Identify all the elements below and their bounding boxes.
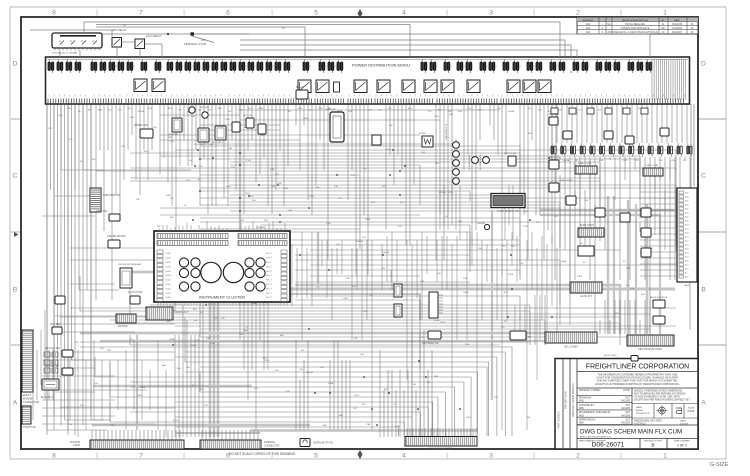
svg-text:27BL: 27BL [448, 192, 454, 194]
svg-text:4: 4 [402, 453, 406, 460]
svg-text:14B: 14B [288, 210, 292, 212]
svg-text:GND: GND [343, 298, 348, 300]
svg-text:DATE: DATE [674, 19, 680, 22]
svg-text:DWG DIAG. SCHEM. MAIN FLX: DWG DIAG. SCHEM. MAIN FLX [572, 383, 575, 417]
svg-text:1: 1 [663, 10, 667, 17]
svg-text:CRUISE SET/RESUME: CRUISE SET/RESUME [118, 264, 142, 266]
svg-text:RH-C7: RH-C7 [266, 253, 273, 255]
svg-text:MATERIAL SYMBOL:: MATERIAL SYMBOL: [579, 389, 601, 392]
svg-text:AND TOLERANCES ARE DEFINED ACC: AND TOLERANCES ARE DEFINED ACCORDING [634, 393, 686, 396]
svg-text:14B: 14B [334, 186, 338, 188]
svg-text:GND: GND [137, 395, 142, 397]
svg-text:B: B [651, 443, 654, 448]
svg-text:2-BAR CONNECTOR: 2-BAR CONNECTOR [429, 448, 452, 451]
svg-text:BLU CONN: BLU CONN [565, 346, 578, 349]
svg-text:24B: 24B [107, 350, 111, 352]
svg-text:LH-A2: LH-A2 [165, 261, 172, 264]
svg-text:THROTTLE: THROTTLE [23, 426, 36, 429]
svg-text:B: B [701, 287, 706, 294]
svg-text:02/10/97: 02/10/97 [672, 30, 683, 34]
svg-text:81K: 81K [144, 151, 148, 153]
svg-text:6: 6 [226, 10, 230, 17]
svg-text:23A: 23A [58, 114, 62, 117]
svg-text:HI LOW RES: HI LOW RES [391, 270, 393, 282]
svg-text:196A: 196A [303, 117, 309, 120]
svg-text:GND: GND [166, 321, 171, 323]
svg-text:ABS MODULATOR: ABS MODULATOR [650, 296, 668, 299]
svg-text:TURN SIGNAL SW: TURN SIGNAL SW [497, 209, 520, 213]
svg-text:P100: P100 [434, 116, 440, 118]
svg-text:CAB DOME LTS: CAB DOME LTS [445, 123, 448, 140]
svg-text:ABS: ABS [685, 284, 690, 287]
svg-text:27BL: 27BL [395, 426, 401, 428]
svg-text:3: 3 [489, 10, 493, 17]
svg-text:24B: 24B [449, 114, 453, 116]
svg-text:ANGLE: ANGLE [636, 409, 644, 412]
svg-text:INC/DEC SW: INC/DEC SW [45, 366, 60, 368]
svg-text:30M: 30M [270, 169, 274, 171]
svg-text:1200: 1200 [345, 278, 351, 280]
svg-text:PART NUMBER: PART NUMBER [558, 411, 561, 428]
svg-text:-: - [609, 27, 610, 30]
svg-text:FIREWALL STUB: FIREWALL STUB [184, 42, 206, 46]
svg-text:RH-C7: RH-C7 [266, 271, 273, 273]
svg-text:1200: 1200 [225, 119, 231, 121]
svg-text:9/27: 9/27 [626, 398, 631, 400]
svg-text:30M: 30M [599, 160, 603, 162]
svg-text:RH-C7: RH-C7 [266, 275, 273, 277]
svg-text:800GA: 800GA [382, 251, 389, 254]
svg-text:196A: 196A [191, 344, 197, 347]
svg-text:STOP LT SW: STOP LT SW [504, 153, 516, 155]
svg-text:4: 4 [402, 10, 406, 17]
svg-text:23A: 23A [458, 220, 462, 223]
svg-text:9/27: 9/27 [626, 419, 631, 421]
svg-text:81K: 81K [362, 404, 366, 406]
svg-text:UPDATE AND OBSOLETE: UPDATE AND OBSOLETE [621, 27, 650, 30]
svg-text:RH-C7: RH-C7 [266, 297, 273, 299]
svg-text:1200: 1200 [354, 395, 360, 397]
svg-text:196A: 196A [328, 382, 334, 385]
svg-text:REVISION DESCRIPTION: REVISION DESCRIPTION [622, 20, 648, 22]
svg-text:81K: 81K [193, 309, 197, 311]
svg-text:81K: 81K [504, 292, 508, 294]
svg-text:HEAT AC: HEAT AC [549, 155, 560, 159]
svg-text:81K: 81K [80, 161, 84, 163]
svg-text:PRK BRKE SW: PRK BRKE SW [422, 342, 439, 345]
svg-text:RH-C7: RH-C7 [266, 284, 273, 286]
svg-text:1200: 1200 [309, 196, 315, 198]
svg-text:30M: 30M [315, 187, 319, 189]
svg-text:SCALE: SCALE [688, 407, 695, 410]
svg-text:LH-A2: LH-A2 [165, 283, 172, 286]
svg-text:GND: GND [318, 108, 323, 110]
svg-text:RH-C7: RH-C7 [266, 258, 273, 260]
svg-text:3: 3 [489, 453, 493, 460]
svg-text:GND: GND [166, 195, 171, 197]
svg-text:P100: P100 [577, 276, 583, 278]
svg-text:LOAD CONN: LOAD CONN [578, 162, 591, 165]
svg-text:BLPR CONC: BLPR CONC [604, 355, 617, 357]
svg-text:RH-C7: RH-C7 [266, 262, 273, 264]
svg-text:GND: GND [558, 110, 563, 112]
svg-text:ENG FAN SW: ENG FAN SW [45, 347, 60, 350]
svg-text:RH DOME LT: RH DOME LT [212, 142, 225, 144]
svg-text:DWG DIAG SCHEM MAIN FLX CUM: DWG DIAG SCHEM MAIN FLX CUM [580, 429, 682, 436]
svg-text:LH-A2: LH-A2 [165, 287, 172, 290]
svg-text:1: 1 [663, 453, 667, 460]
svg-text:HDLP SW: HDLP SW [96, 210, 108, 213]
svg-text:30M: 30M [458, 111, 462, 113]
svg-text:NONE: NONE [688, 411, 695, 413]
svg-text:01/30/96: 01/30/96 [672, 26, 683, 30]
svg-text:FIXED ECU1, AJ AND CHGD LGHTR: FIXED ECU1, AJ AND CHGD LGHTR FLD [612, 31, 658, 34]
svg-text:27BL: 27BL [523, 226, 529, 228]
svg-text:9/27: 9/27 [626, 412, 631, 414]
svg-text:AB: AB [607, 30, 611, 34]
svg-text:5: 5 [314, 10, 318, 17]
svg-text:P100: P100 [440, 322, 446, 324]
svg-text:KD: KD [661, 26, 665, 30]
svg-text:FREIGHTLINER CORPORATION: FREIGHTLINER CORPORATION [586, 364, 689, 371]
svg-text:800GA: 800GA [563, 159, 570, 162]
svg-text:IGN DIAG ACC | IGN BAT: IGN DIAG ACC | IGN BAT [52, 52, 78, 55]
svg-text:JK: JK [690, 22, 693, 26]
svg-text:CONNECTOR: CONNECTOR [264, 445, 280, 448]
svg-text:2: 2 [576, 453, 580, 460]
svg-text:P100: P100 [246, 160, 252, 162]
svg-text:LH-A2: LH-A2 [165, 265, 172, 268]
svg-text:2: 2 [576, 10, 580, 17]
svg-text:LOAD CONN: LOAD CONN [645, 164, 658, 167]
svg-text:196A: 196A [671, 159, 676, 162]
svg-text:LH FW LT: LH FW LT [186, 104, 196, 106]
svg-text:LH-A2: LH-A2 [165, 292, 172, 295]
svg-text:9/27: 9/27 [626, 405, 631, 407]
svg-text:81K: 81K [130, 117, 134, 119]
svg-text:P100: P100 [264, 360, 270, 362]
svg-text:30K RELAY: 30K RELAY [112, 28, 127, 32]
svg-text:27BL: 27BL [614, 313, 620, 315]
svg-text:196A: 196A [434, 319, 440, 322]
svg-text:14B: 14B [420, 281, 424, 283]
svg-text:30M: 30M [98, 110, 102, 112]
svg-text:LH-A2: LH-A2 [165, 270, 172, 273]
svg-text:INSTRUMENT CLUSTER: INSTRUMENT CLUSTER [199, 295, 245, 300]
svg-text:RH FW LT: RH FW LT [200, 107, 210, 109]
svg-text:APPLICATION/ DESCRIPTION: APPLICATION/ DESCRIPTION [580, 436, 611, 439]
svg-text:DO NOT SCALE COPIES OF THIS DR: DO NOT SCALE COPIES OF THIS DRAWING [229, 452, 296, 456]
svg-text:A: A [701, 400, 706, 407]
svg-text:JC: JC [661, 30, 664, 34]
svg-text:196A: 196A [140, 386, 146, 389]
svg-text:TO ANSI STANDARDS Y14.5M, 1982: TO ANSI STANDARDS Y14.5M, 1982. WITH [634, 396, 680, 399]
svg-text:ACC RELAY: ACC RELAY [146, 34, 162, 38]
svg-text:800GA: 800GA [439, 191, 446, 194]
svg-text:EnduraTL L: EnduraTL L [41, 396, 55, 399]
svg-text:5: 5 [314, 453, 318, 460]
svg-text:14B: 14B [284, 188, 288, 190]
svg-text:JK: JK [690, 30, 693, 34]
svg-text:OVL SW: OVL SW [50, 322, 61, 326]
svg-text:GATE JCT: GATE JCT [580, 295, 592, 298]
svg-text:14B: 14B [121, 146, 125, 148]
svg-text:CHECKED BY:: CHECKED BY: [579, 405, 595, 407]
svg-text:SHEET NUMBER: SHEET NUMBER [674, 441, 690, 443]
svg-text:IGN SW: IGN SW [549, 112, 559, 116]
svg-text:HORN BUTTON: HORN BUTTON [313, 441, 333, 445]
svg-text:81K: 81K [502, 246, 506, 248]
svg-text:EXCEPTIONS PER FREIGHTLINER CO: EXCEPTIONS PER FREIGHTLINER COM REQT SET [634, 400, 690, 402]
svg-text:DATA JCT: DATA JCT [176, 310, 189, 314]
svg-text:MADE: MADE [636, 406, 643, 409]
svg-text:LH-A2: LH-A2 [165, 252, 172, 255]
svg-text:P100: P100 [362, 311, 368, 313]
svg-text:23A: 23A [228, 147, 232, 150]
svg-text:DIMENSIONAL MFG SPEC: DIMENSIONAL MFG SPEC [634, 419, 663, 422]
svg-text:800GA: 800GA [508, 110, 515, 113]
svg-text:LT SW: LT SW [604, 359, 611, 361]
svg-text:CONNECTOR: CONNECTOR [23, 401, 39, 404]
svg-text:C: C [13, 173, 18, 180]
svg-text:8: 8 [52, 453, 56, 460]
svg-text:CHASSIS: CHASSIS [70, 441, 81, 444]
svg-text:KEYPAD: KEYPAD [118, 325, 128, 328]
svg-text:800GA: 800GA [138, 110, 145, 113]
svg-text:1200: 1200 [326, 223, 332, 225]
svg-text:RH-C7: RH-C7 [266, 288, 273, 290]
svg-text:G-SIZE: G-SIZE [710, 462, 729, 468]
svg-text:HORN: HORN [419, 133, 426, 135]
svg-text:RH REAR MRKR: RH REAR MRKR [479, 154, 482, 170]
svg-text:D: D [13, 61, 18, 68]
svg-text:A02: A02 [586, 26, 591, 30]
svg-text:INITIAL RELEASE: INITIAL RELEASE [625, 23, 645, 26]
svg-text:UNLESS OTHERWISE NOTED: DIMENS: UNLESS OTHERWISE NOTED: DIMENSIONS [634, 391, 683, 393]
svg-text:ABS CHASSIS CONN: ABS CHASSIS CONN [638, 348, 662, 351]
svg-text:7: 7 [139, 10, 143, 17]
svg-text:30M: 30M [271, 186, 275, 188]
svg-text:27BL: 27BL [245, 193, 251, 195]
svg-text:DIAG CONN: DIAG CONN [560, 179, 573, 182]
svg-text:A03: A03 [586, 30, 591, 34]
svg-text:NA: NA [607, 22, 611, 26]
svg-text:EXCEPT AS AUTHORIZED IN WRITIN: EXCEPT AS AUTHORIZED IN WRITING BY FREIG… [595, 383, 680, 386]
svg-text:GND: GND [226, 186, 231, 188]
svg-text:7P: 7P [528, 336, 531, 339]
svg-text:23A: 23A [626, 267, 630, 270]
svg-text:196A: 196A [561, 260, 567, 263]
svg-text:196A: 196A [365, 218, 371, 221]
svg-text:A: A [13, 400, 18, 407]
svg-text:23A: 23A [299, 368, 303, 371]
svg-text:23A: 23A [463, 277, 467, 280]
svg-text:DRAWN BY:: DRAWN BY: [579, 397, 592, 400]
svg-text:196A: 196A [463, 291, 469, 294]
svg-text:D: D [701, 61, 706, 68]
svg-text:196A: 196A [169, 338, 175, 341]
svg-text:23A: 23A [465, 343, 469, 346]
svg-text:23A: 23A [421, 151, 425, 154]
svg-text:24B: 24B [630, 288, 634, 290]
svg-text:23A: 23A [366, 423, 370, 426]
svg-text:7: 7 [139, 453, 143, 460]
svg-text:DATE:: DATE: [680, 419, 687, 422]
svg-text:A01: A01 [586, 22, 591, 26]
svg-text:RD LT SW: RD LT SW [243, 115, 252, 117]
svg-text:DATE:: DATE: [623, 389, 630, 392]
svg-text:LH REAR MRKR: LH REAR MRKR [468, 154, 471, 170]
svg-text:14B: 14B [239, 334, 243, 336]
svg-text:81K: 81K [192, 385, 196, 387]
svg-text:800GA: 800GA [257, 226, 264, 229]
svg-text:D06-26071-000: D06-26071-000 [564, 390, 568, 409]
svg-text:RH-C7: RH-C7 [266, 266, 273, 268]
svg-text:LH-A2: LH-A2 [165, 296, 172, 299]
svg-text:P100: P100 [173, 420, 179, 422]
svg-text:1 OF 2: 1 OF 2 [677, 444, 687, 448]
svg-text:30M: 30M [298, 108, 302, 110]
svg-text:RH-C7: RH-C7 [266, 280, 273, 282]
svg-text:CLOCK: CLOCK [477, 222, 486, 225]
svg-text:LH-A2: LH-A2 [165, 257, 172, 260]
svg-text:C: C [701, 173, 706, 180]
svg-text:LH DOME LT: LH DOME LT [194, 144, 207, 146]
svg-text:POWER DISTRIBUTION MODU: POWER DISTRIBUTION MODU [352, 63, 410, 68]
svg-text:WIPER SW: WIPER SW [134, 123, 148, 127]
svg-text:PARK BRK SW: PARK BRK SW [103, 194, 121, 197]
svg-text:800GA: 800GA [306, 371, 313, 374]
svg-text:BLPR CONN: BLPR CONN [580, 224, 594, 227]
svg-text:CRUISE ON/OFF: CRUISE ON/OFF [107, 235, 126, 238]
svg-text:RH-C7: RH-C7 [266, 293, 273, 295]
svg-text:24B: 24B [209, 144, 213, 146]
svg-text:30M: 30M [434, 376, 438, 378]
svg-text:27BL: 27BL [110, 425, 116, 427]
svg-text:P100: P100 [508, 274, 514, 276]
svg-text:09/11/95: 09/11/95 [672, 22, 682, 26]
svg-text:LH-A2: LH-A2 [165, 279, 172, 282]
svg-text:-: - [602, 23, 603, 26]
svg-text:RELAY: RELAY [296, 85, 305, 89]
svg-text:REVISION: REVISION [583, 20, 594, 22]
svg-text:1200: 1200 [169, 141, 175, 143]
svg-text:CONN: CONN [73, 445, 80, 447]
svg-text:PROJECTION: PROJECTION [636, 413, 650, 415]
svg-text:81K: 81K [400, 202, 404, 204]
svg-text:JK: JK [690, 26, 693, 30]
svg-text:27BL: 27BL [210, 343, 216, 345]
svg-text:800GA: 800GA [356, 240, 363, 243]
svg-text:ENGINEERING CHECKED BY:: ENGINEERING CHECKED BY: [579, 412, 612, 414]
svg-text:196A: 196A [258, 107, 263, 110]
svg-text:24B: 24B [191, 116, 195, 118]
svg-text:BACKUP?: BACKUP? [326, 108, 337, 111]
svg-text:SLEEPER: SLEEPER [168, 134, 179, 136]
svg-text:CLUTCH SW: CLUTCH SW [128, 291, 143, 294]
svg-text:8: 8 [52, 10, 56, 17]
svg-text:D06-26071: D06-26071 [592, 442, 625, 449]
svg-text:1200: 1200 [74, 342, 80, 344]
svg-text:B: B [13, 287, 18, 294]
svg-text:APPROVED BY:: APPROVED BY: [579, 418, 596, 421]
svg-text:1200: 1200 [466, 417, 472, 419]
svg-text:LH-A2: LH-A2 [165, 274, 172, 277]
